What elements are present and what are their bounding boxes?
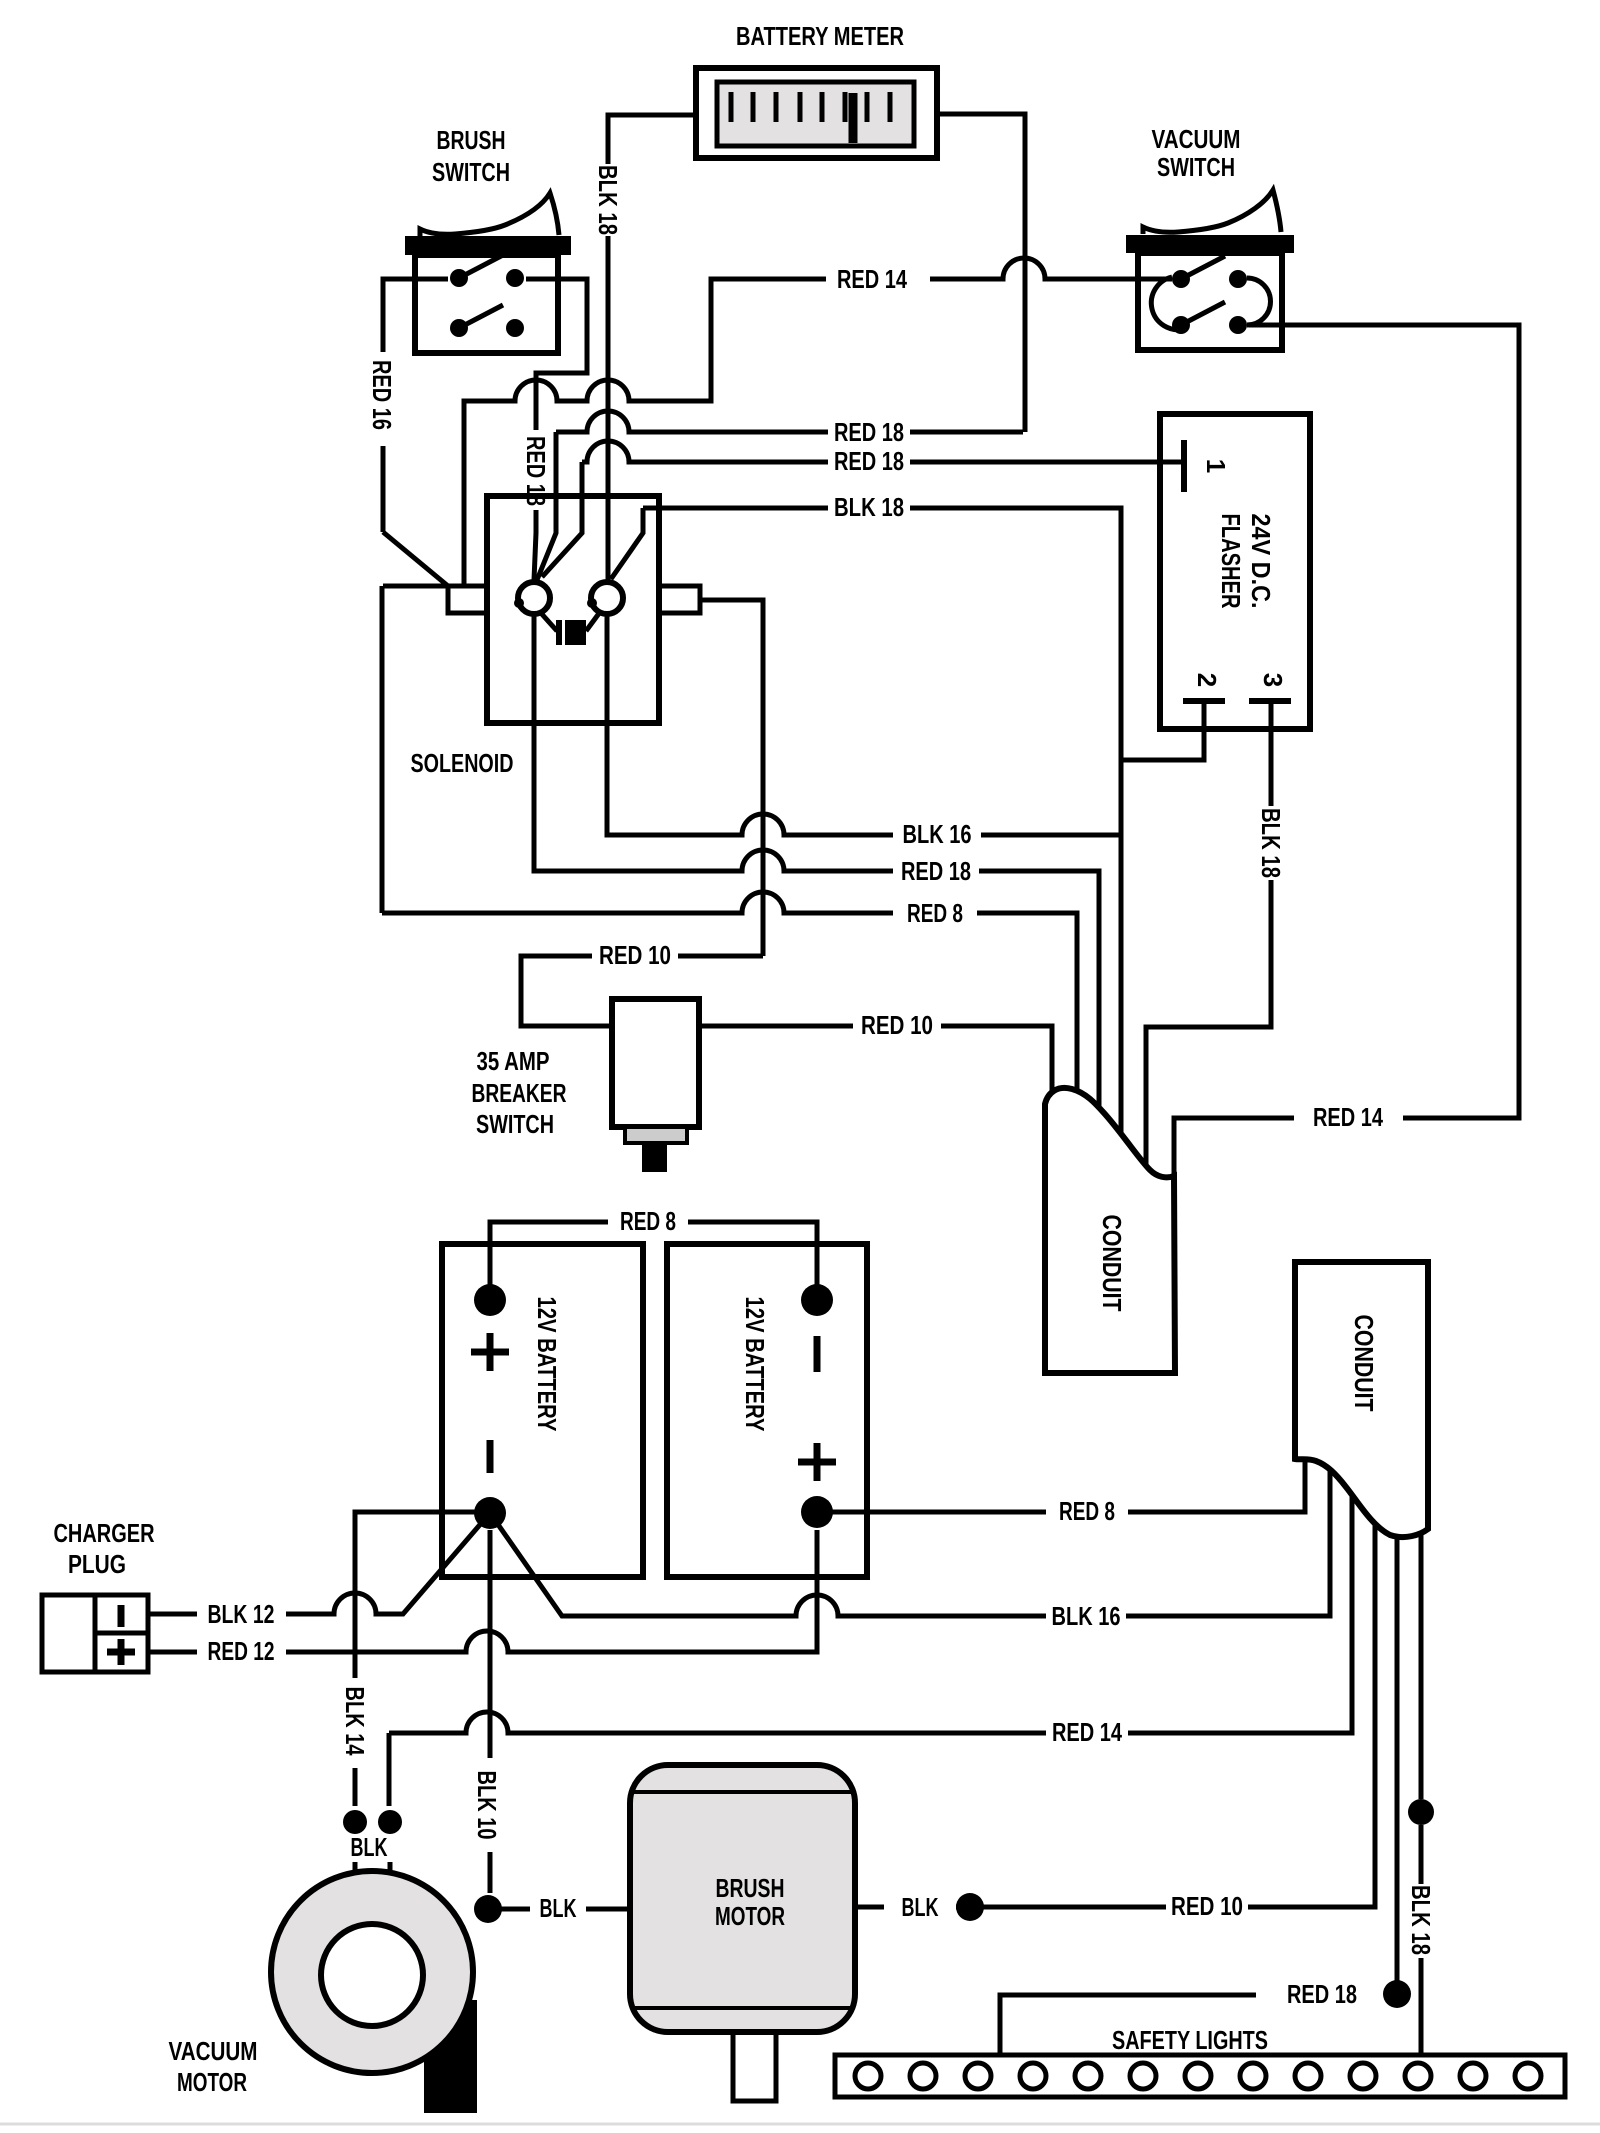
wire BLK 14 (battery 1 - to vacuum motor): [355, 1512, 478, 1874]
wire RED 18 (brush switch right contact down to solenoid): [526, 279, 587, 580]
svg-text:RED 8: RED 8: [1059, 1496, 1115, 1526]
svg-text:BLK 18: BLK 18: [834, 492, 904, 522]
charger plug P1: [42, 1595, 148, 1672]
svg-text:BLK 18: BLK 18: [1406, 1885, 1436, 1955]
svg-text:12V BATTERY: 12V BATTERY: [740, 1297, 770, 1432]
svg-text:BLK 18: BLK 18: [1256, 808, 1286, 878]
wire RED 14 left end down to vacuum motor: [389, 1733, 390, 1874]
wire vacuum switch to RED 14 right riser and conduit: [1174, 325, 1519, 1180]
svg-text:RED 10: RED 10: [599, 940, 671, 970]
wire BLK 16 (battery 1 - diagonal to conduit 2): [490, 1430, 1330, 1616]
svg-text:RED 14: RED 14: [1313, 1102, 1383, 1132]
wire RED 14 (bottom run to conduit 2): [389, 1430, 1352, 1733]
svg-text:RED 18: RED 18: [521, 436, 551, 506]
svg-text:CHARGER: CHARGER: [54, 1518, 155, 1548]
wire BLK 18 (battery meter left lead down to solenoid right coil): [608, 115, 696, 581]
svg-text:RED 8: RED 8: [907, 898, 963, 928]
wire solenoid right tab to RED 10 riser: [700, 600, 763, 956]
flasher pin 3: [1249, 698, 1291, 704]
wire RED 8 (solenoid area to conduit): [382, 892, 893, 913]
wire RED 8 (battery 1 + to battery 2 -): [490, 1222, 817, 1296]
svg-text:BLK 16: BLK 16: [903, 819, 972, 849]
wire RED 18 (safety lights to conduit 2): [1000, 1430, 1397, 2058]
svg-text:3: 3: [1258, 673, 1288, 687]
svg-text:BLK 12: BLK 12: [208, 1599, 275, 1629]
svg-text:BATTERY METER: BATTERY METER: [736, 21, 904, 51]
wire RED 10 (breaker switch to conduit): [699, 1026, 1052, 1250]
wire RED 10 (riser to breaker switch): [521, 956, 763, 1026]
wire flasher pin 2 jog: [1121, 701, 1204, 760]
wire battery meter right lead: [937, 114, 1025, 432]
svg-text:RED 10: RED 10: [861, 1010, 933, 1040]
svg-text:MOTOR: MOTOR: [177, 2067, 247, 2097]
wire RED 10 (brush motor to conduit 2): [855, 1430, 1375, 1907]
node vacuum motor BLK terminal 1: [343, 1810, 367, 1834]
wire BLK 12 (charger plug to battery 1 -): [148, 1513, 490, 1614]
wire RED 18 (solenoid to flasher pin 1): [542, 441, 1181, 577]
wire RED 16 (brush switch to solenoid left tab): [382, 279, 448, 913]
svg-text:BLK: BLK: [540, 1893, 577, 1923]
vacuum motor M1: [271, 1871, 477, 2113]
solenoid K1: [448, 496, 700, 723]
svg-text:RED 18: RED 18: [834, 417, 904, 447]
svg-text:VACUUM: VACUUM: [1152, 124, 1241, 154]
svg-text:35 AMP: 35 AMP: [477, 1046, 550, 1076]
wire BLK 18 (solenoid right coil to flasher pin 2 and conduit): [611, 508, 1121, 1250]
brush motor M2: [630, 1765, 855, 2101]
conduit 1: [1045, 1088, 1175, 1373]
battery B1 (12V): [442, 1244, 643, 1577]
wire BLK 18 (conduit 2 to safety lights): [1419, 1430, 1424, 2058]
wire BLK 18 (flasher pin 3 down to conduit): [1146, 701, 1271, 1250]
svg-text:RED 18: RED 18: [834, 446, 904, 476]
svg-text:MOTOR: MOTOR: [715, 1901, 785, 1931]
svg-text:24V D.C.FLASHER: 24V D.C.FLASHER: [1216, 514, 1276, 609]
svg-text:SAFETY LIGHTS: SAFETY LIGHTS: [1112, 2025, 1268, 2055]
node RED 18 junction at conduit 2: [1383, 1980, 1411, 2008]
24V DC flasher U2: [1160, 414, 1310, 729]
svg-text:CONDUIT: CONDUIT: [1349, 1315, 1379, 1412]
brush switch S1: [405, 193, 571, 353]
svg-text:BLK: BLK: [351, 1832, 388, 1862]
svg-text:1: 1: [1201, 459, 1231, 473]
svg-text:RED 14: RED 14: [1052, 1717, 1122, 1747]
svg-text:BLK 14: BLK 14: [340, 1687, 370, 1756]
wire solenoid left tab riser and RED 14 run to vacuum switch: [464, 258, 1172, 586]
svg-text:PLUG: PLUG: [68, 1549, 126, 1579]
svg-text:SWITCH: SWITCH: [432, 157, 510, 187]
svg-text:SWITCH: SWITCH: [1157, 152, 1235, 182]
svg-text:BLK 16: BLK 16: [1052, 1601, 1121, 1631]
svg-text:SWITCH: SWITCH: [476, 1109, 554, 1139]
svg-text:BLK 10: BLK 10: [472, 1771, 502, 1840]
battery B2 (12V): [667, 1244, 867, 1577]
wire BLK 10 (battery 1 - down to vacuum motor BLK junction and brush motor): [488, 1530, 636, 1909]
svg-text:RED 16: RED 16: [367, 360, 397, 430]
wire RED 18 (meter right lead to solenoid left coil): [537, 411, 1023, 580]
svg-text:RED 12: RED 12: [208, 1636, 275, 1666]
svg-text:CONDUIT: CONDUIT: [1097, 1215, 1127, 1312]
35 amp breaker switch CB1: [612, 999, 699, 1172]
svg-text:RED 18: RED 18: [1287, 1979, 1357, 2009]
node brush motor BLK junction: [956, 1893, 984, 1921]
flasher pin 1: [1181, 440, 1187, 492]
node vacuum motor BLK terminal 2: [378, 1810, 402, 1834]
scan artifact bottom border: [0, 2123, 1600, 2126]
wire RED 8 (battery 2 + to conduit 2): [829, 1430, 1305, 1512]
svg-text:12V BATTERY: 12V BATTERY: [532, 1297, 562, 1432]
wire RED 18 (solenoid left coil bottom to conduit): [534, 614, 893, 871]
svg-text:BREAKER: BREAKER: [472, 1078, 567, 1108]
svg-text:RED 8: RED 8: [620, 1206, 676, 1236]
svg-text:BRUSH: BRUSH: [716, 1873, 785, 1903]
vacuum switch S2: [1126, 190, 1294, 350]
node BLK 18 junction: [1408, 1799, 1434, 1825]
wire BLK 16 (solenoid right coil bottom to conduit): [607, 614, 893, 835]
svg-text:SOLENOID: SOLENOID: [411, 748, 514, 778]
svg-text:2: 2: [1192, 673, 1222, 687]
conduit 2: [1295, 1262, 1428, 1537]
svg-text:BLK: BLK: [902, 1892, 939, 1922]
diode D1 inside solenoid: [540, 612, 557, 631]
svg-text:VACUUM: VACUUM: [169, 2036, 258, 2066]
svg-text:RED 14: RED 14: [837, 264, 907, 294]
flasher pin 2: [1183, 698, 1225, 704]
battery meter U1: [696, 68, 937, 158]
svg-text:BRUSH: BRUSH: [437, 125, 506, 155]
svg-text:RED 18: RED 18: [901, 856, 971, 886]
wire RED 12 (charger plug to battery 2 +): [148, 1530, 817, 1652]
safety lights LP1: [835, 2055, 1565, 2097]
node BLK 10 junction: [474, 1895, 502, 1923]
svg-text:RED 10: RED 10: [1171, 1891, 1243, 1921]
svg-text:BLK 18: BLK 18: [593, 165, 623, 235]
